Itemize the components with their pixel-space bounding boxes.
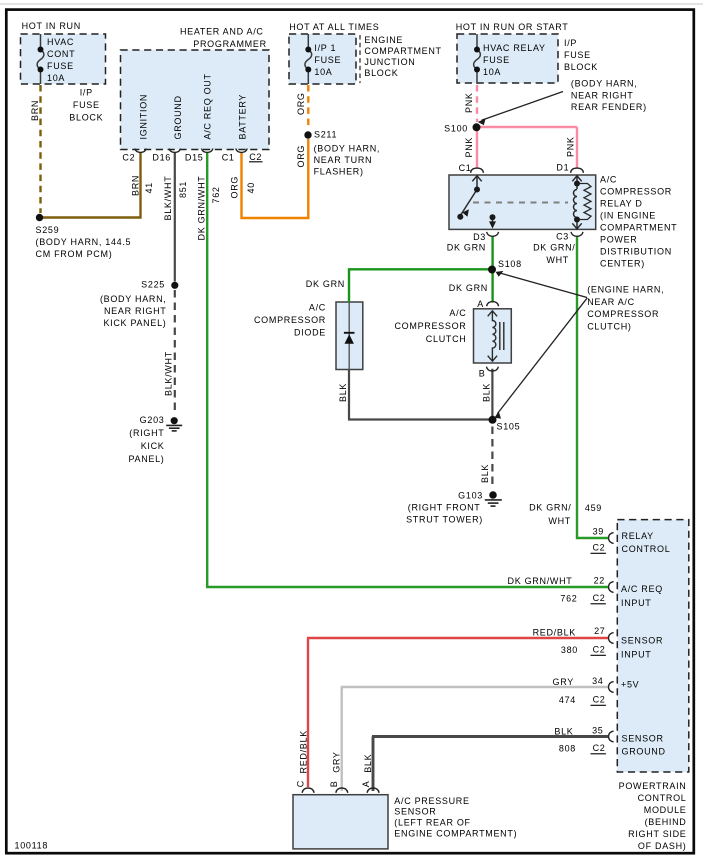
svg-text:NEAR A/C: NEAR A/C <box>587 297 635 307</box>
svg-text:(RIGHT FRONT: (RIGHT FRONT <box>408 502 481 512</box>
svg-text:10A: 10A <box>483 67 501 77</box>
svg-text:C2: C2 <box>249 152 262 162</box>
svg-text:G103: G103 <box>458 490 483 500</box>
svg-text:BLK/WHT: BLK/WHT <box>164 351 174 396</box>
svg-text:CONT: CONT <box>47 49 75 59</box>
svg-text:C2: C2 <box>592 543 605 553</box>
svg-text:D16: D16 <box>152 152 171 162</box>
svg-text:HVAC: HVAC <box>47 37 74 47</box>
svg-text:HVAC RELAY: HVAC RELAY <box>483 43 546 53</box>
svg-text:A: A <box>477 299 484 309</box>
svg-text:COMPRESSOR: COMPRESSOR <box>600 187 672 197</box>
svg-text:S100: S100 <box>444 124 468 134</box>
svg-text:DK GRN/: DK GRN/ <box>529 502 571 512</box>
svg-text:RED/BLK: RED/BLK <box>533 627 576 637</box>
svg-text:BATTERY: BATTERY <box>238 94 248 140</box>
svg-text:GROUND: GROUND <box>173 95 183 139</box>
svg-text:DK GRN/WHT: DK GRN/WHT <box>508 576 573 586</box>
svg-text:PNK: PNK <box>464 137 474 158</box>
svg-text:(RIGHT: (RIGHT <box>129 428 164 438</box>
svg-text:COMPRESSOR: COMPRESSOR <box>394 321 466 331</box>
svg-text:762: 762 <box>211 186 221 203</box>
svg-text:SENSOR: SENSOR <box>394 807 436 817</box>
svg-text:CLUTCH): CLUTCH) <box>587 322 631 332</box>
svg-text:KICK: KICK <box>141 441 165 451</box>
svg-text:BLK: BLK <box>480 464 490 483</box>
svg-text:100118: 100118 <box>15 841 49 851</box>
svg-text:S259: S259 <box>36 225 60 235</box>
svg-text:BRN: BRN <box>30 100 40 121</box>
svg-text:NEAR RIGHT: NEAR RIGHT <box>571 90 634 100</box>
svg-text:DK GRN: DK GRN <box>447 243 486 253</box>
svg-text:10A: 10A <box>314 67 332 77</box>
svg-text:A/C: A/C <box>600 175 617 185</box>
svg-text:459: 459 <box>585 503 602 513</box>
svg-text:ORG: ORG <box>296 92 306 115</box>
svg-text:ENGINE COMPARTMENT): ENGINE COMPARTMENT) <box>394 829 517 839</box>
svg-text:RIGHT SIDE: RIGHT SIDE <box>628 829 686 839</box>
svg-text:CLUTCH: CLUTCH <box>426 334 467 344</box>
svg-text:INPUT: INPUT <box>621 649 652 659</box>
svg-text:RELAY D: RELAY D <box>600 199 643 209</box>
svg-text:BLOCK: BLOCK <box>69 113 103 123</box>
svg-text:COMPRESSOR: COMPRESSOR <box>254 315 326 325</box>
svg-text:CENTER): CENTER) <box>600 259 645 269</box>
svg-text:(IN ENGINE: (IN ENGINE <box>600 211 656 221</box>
svg-text:BLK/WHT: BLK/WHT <box>163 176 173 221</box>
svg-text:BLK: BLK <box>554 726 573 736</box>
svg-text:A/C REQ: A/C REQ <box>621 584 663 594</box>
svg-text:NEAR RIGHT: NEAR RIGHT <box>104 306 167 316</box>
svg-text:C2: C2 <box>122 152 135 162</box>
svg-text:STRUT TOWER): STRUT TOWER) <box>406 514 483 524</box>
svg-text:BLK: BLK <box>481 383 491 402</box>
svg-text:HOT IN RUN OR START: HOT IN RUN OR START <box>456 22 569 32</box>
svg-text:C2: C2 <box>593 743 606 753</box>
svg-text:FUSE: FUSE <box>564 50 591 60</box>
svg-text:(BODY HARN,: (BODY HARN, <box>314 143 381 153</box>
svg-text:BLOCK: BLOCK <box>564 62 598 72</box>
svg-text:762: 762 <box>560 594 577 604</box>
svg-text:REAR FENDER): REAR FENDER) <box>571 102 647 112</box>
svg-text:380: 380 <box>561 645 578 655</box>
svg-text:PNK: PNK <box>566 136 576 157</box>
svg-text:ORG: ORG <box>296 145 306 168</box>
svg-text:FUSE: FUSE <box>47 61 74 71</box>
svg-text:D15: D15 <box>185 152 204 162</box>
svg-text:851: 851 <box>178 181 188 198</box>
svg-text:(BODY HARN,: (BODY HARN, <box>100 294 167 304</box>
svg-text:FUSE: FUSE <box>73 100 100 110</box>
svg-text:(LEFT REAR OF: (LEFT REAR OF <box>394 818 470 828</box>
svg-text:HOT AT ALL TIMES: HOT AT ALL TIMES <box>289 22 379 32</box>
svg-text:CM FROM PCM): CM FROM PCM) <box>36 249 113 259</box>
svg-text:BLK: BLK <box>338 383 348 402</box>
svg-text:RED/BLK: RED/BLK <box>299 730 309 773</box>
svg-text:OF DASH): OF DASH) <box>638 841 687 851</box>
svg-text:CONTROL: CONTROL <box>638 793 687 803</box>
svg-text:MODULE: MODULE <box>644 805 687 815</box>
svg-text:DIODE: DIODE <box>294 328 326 338</box>
svg-text:S225: S225 <box>141 280 165 290</box>
svg-text:(BODY HARN,: (BODY HARN, <box>571 79 638 89</box>
svg-text:NEAR TURN: NEAR TURN <box>314 155 373 165</box>
svg-text:39: 39 <box>593 526 604 536</box>
svg-text:C1: C1 <box>459 163 472 173</box>
svg-text:RELAY: RELAY <box>622 531 654 541</box>
svg-text:HOT IN RUN: HOT IN RUN <box>22 21 81 31</box>
svg-text:IGNITION: IGNITION <box>139 94 149 140</box>
svg-text:FUSE: FUSE <box>483 55 510 65</box>
svg-text:KICK PANEL): KICK PANEL) <box>103 318 166 328</box>
svg-text:PNK: PNK <box>464 92 474 113</box>
svg-text:D3: D3 <box>473 232 486 242</box>
svg-text:I/P: I/P <box>564 38 577 48</box>
svg-text:BLOCK: BLOCK <box>364 68 398 78</box>
svg-text:C1: C1 <box>222 152 235 162</box>
svg-text:FUSE: FUSE <box>314 55 341 65</box>
svg-text:PROGRAMMER: PROGRAMMER <box>193 39 267 49</box>
svg-text:A/C: A/C <box>309 303 326 313</box>
svg-text:GRY: GRY <box>553 677 574 687</box>
svg-text:10A: 10A <box>47 73 65 83</box>
svg-text:34: 34 <box>592 676 603 686</box>
svg-text:ENGINE: ENGINE <box>364 35 403 45</box>
svg-text:WHT: WHT <box>548 516 571 526</box>
svg-text:(BEHIND: (BEHIND <box>645 817 687 827</box>
svg-text:SENSOR: SENSOR <box>621 635 663 645</box>
svg-text:(ENGINE HARN,: (ENGINE HARN, <box>587 285 664 295</box>
svg-text:SENSOR: SENSOR <box>622 733 664 743</box>
svg-text:(BODY HARN, 144.5: (BODY HARN, 144.5 <box>36 237 132 247</box>
svg-text:ORG: ORG <box>230 176 240 199</box>
svg-text:G203: G203 <box>140 415 165 425</box>
svg-text:474: 474 <box>559 695 576 705</box>
svg-text:A: A <box>361 781 371 788</box>
svg-text:C2: C2 <box>593 695 606 705</box>
svg-text:I/P 1: I/P 1 <box>314 43 336 53</box>
svg-text:+5V: +5V <box>621 679 639 689</box>
svg-text:41: 41 <box>144 182 154 193</box>
svg-text:POWERTRAIN: POWERTRAIN <box>619 781 687 791</box>
svg-text:A/C PRESSURE: A/C PRESSURE <box>394 796 469 806</box>
svg-text:I/P: I/P <box>80 88 93 98</box>
svg-text:POWER: POWER <box>600 235 638 245</box>
svg-text:35: 35 <box>592 726 603 736</box>
svg-text:DK GRN/WHT: DK GRN/WHT <box>197 176 207 241</box>
svg-text:C: C <box>295 780 305 787</box>
svg-text:COMPARTMENT: COMPARTMENT <box>364 46 441 56</box>
svg-text:D1: D1 <box>556 163 569 173</box>
svg-text:DK GRN: DK GRN <box>306 279 345 289</box>
svg-text:C2: C2 <box>593 593 606 603</box>
svg-text:C2: C2 <box>593 645 606 655</box>
svg-text:BRN: BRN <box>130 175 140 196</box>
svg-text:INPUT: INPUT <box>621 598 652 608</box>
svg-text:BLK: BLK <box>363 754 373 773</box>
svg-text:GRY: GRY <box>332 751 342 772</box>
svg-text:A/C REQ OUT: A/C REQ OUT <box>202 73 212 139</box>
svg-text:DK GRN: DK GRN <box>449 283 488 293</box>
svg-text:DK GRN/: DK GRN/ <box>533 243 575 253</box>
svg-text:HEATER AND A/C: HEATER AND A/C <box>180 27 264 37</box>
svg-text:27: 27 <box>594 626 605 636</box>
svg-text:B: B <box>329 781 339 788</box>
svg-text:40: 40 <box>246 182 256 193</box>
svg-text:PANEL): PANEL) <box>128 454 164 464</box>
svg-text:CONTROL: CONTROL <box>622 544 671 554</box>
svg-text:B: B <box>479 369 486 379</box>
svg-text:S105: S105 <box>497 422 521 432</box>
svg-text:WHT: WHT <box>546 255 569 265</box>
svg-text:FLASHER): FLASHER) <box>314 167 364 177</box>
svg-text:GROUND: GROUND <box>622 746 666 756</box>
svg-text:22: 22 <box>594 575 605 585</box>
svg-text:S211: S211 <box>314 129 337 139</box>
svg-text:JUNCTION: JUNCTION <box>364 57 415 67</box>
svg-text:808: 808 <box>559 744 576 754</box>
svg-text:COMPRESSOR: COMPRESSOR <box>587 309 659 319</box>
svg-text:C3: C3 <box>556 232 569 242</box>
svg-text:DISTRIBUTION: DISTRIBUTION <box>600 247 672 257</box>
svg-text:S108: S108 <box>498 259 522 269</box>
svg-text:A/C: A/C <box>449 308 466 318</box>
svg-text:COMPARTMENT: COMPARTMENT <box>600 223 677 233</box>
